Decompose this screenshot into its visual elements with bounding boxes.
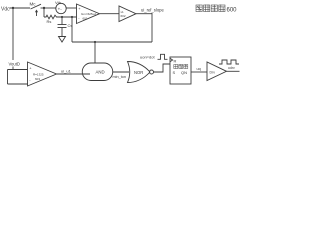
svg-text:NOR: NOR [134, 70, 143, 75]
switch Mc blade [31, 4, 42, 9]
junction node E [94, 41, 96, 43]
buffer U602 [119, 6, 136, 22]
svg-text:+-: +- [58, 7, 63, 12]
wire node E down to AND gate [94, 42, 96, 63]
wire node C down to capacitor Cs [61, 17, 63, 25]
svg-text:VoutD: VoutD [9, 62, 20, 67]
wire driver output [227, 70, 240, 72]
and-gate U604 [82, 63, 113, 81]
svg-text:Drv: Drv [210, 71, 216, 75]
wire AND output to NOR [113, 71, 129, 73]
svg-text:ui_ref_slope: ui_ref_slope [141, 8, 164, 13]
svg-text:Mc: Mc [30, 2, 37, 7]
svg-text:S: S [173, 70, 176, 75]
wire NOR output to latch R [154, 64, 171, 72]
node VoutD label [8, 60, 22, 67]
waveform pulse glyph [158, 54, 168, 59]
svg-text:Vdc: Vdc [1, 7, 10, 13]
wire loop bottom to - input [8, 83, 29, 85]
wire node B down to Rs [43, 8, 45, 17]
junction node D [71, 16, 73, 18]
svg-text:600: 600 [227, 7, 238, 13]
resistor Rs [44, 15, 58, 19]
wire feedback horizontal [72, 41, 152, 43]
wire top from Vdc to switch [10, 7, 31, 9]
source Vth circle [56, 3, 66, 13]
latch/driver U610 [170, 57, 191, 84]
svg-text:QN: QN [181, 70, 187, 75]
ground [59, 35, 66, 42]
label control circuit 600 (CJK drawn as strokes) [196, 5, 225, 12]
wire buffer output [136, 13, 152, 15]
svg-text:ui_u1: ui_u1 [61, 69, 72, 74]
wire Cs to ground [61, 28, 63, 36]
svg-text:min_ton: min_ton [113, 75, 127, 79]
wire U601 output to buffer [100, 13, 120, 15]
svg-text:R: R [174, 59, 177, 64]
driver U620 [207, 62, 227, 81]
waveform square wave glyph [219, 60, 239, 64]
wire feedback riser right [151, 13, 153, 42]
wire vertical left rail down to bottom comparator [12, 8, 14, 70]
junction node C [61, 16, 63, 18]
wire U603 output to AND gate [57, 73, 91, 75]
op-amp U603 [28, 62, 57, 86]
wire source to comparator + input [66, 7, 76, 9]
wire to + input of U603 [8, 69, 28, 71]
wire loop left vertical [7, 70, 9, 85]
wire QN output to driver triangle [191, 71, 207, 73]
nor-gate U605 [128, 62, 151, 83]
svg-text:601: 601 [83, 17, 88, 21]
svg-text:udrv: udrv [228, 66, 235, 70]
wire feedback riser left [71, 17, 73, 42]
junction node B [43, 7, 45, 9]
svg-text:uq: uq [197, 67, 201, 71]
capacitor Cs [58, 24, 67, 26]
wire Rs to comparator - input [58, 16, 77, 18]
svg-text:R=1325: R=1325 [33, 73, 44, 77]
svg-text:Rs: Rs [47, 19, 52, 24]
junction node A [12, 7, 14, 9]
switch Mc control arrow [36, 12, 38, 17]
svg-text:602: 602 [121, 14, 126, 18]
svg-text:uon=dot: uon=dot [140, 54, 155, 59]
wire switch to node B [41, 7, 56, 9]
svg-text:Gm=625uA: Gm=625uA [81, 12, 96, 16]
svg-text:603: 603 [35, 77, 40, 81]
op-amp U601 [77, 4, 100, 24]
svg-text:AND: AND [96, 70, 105, 75]
